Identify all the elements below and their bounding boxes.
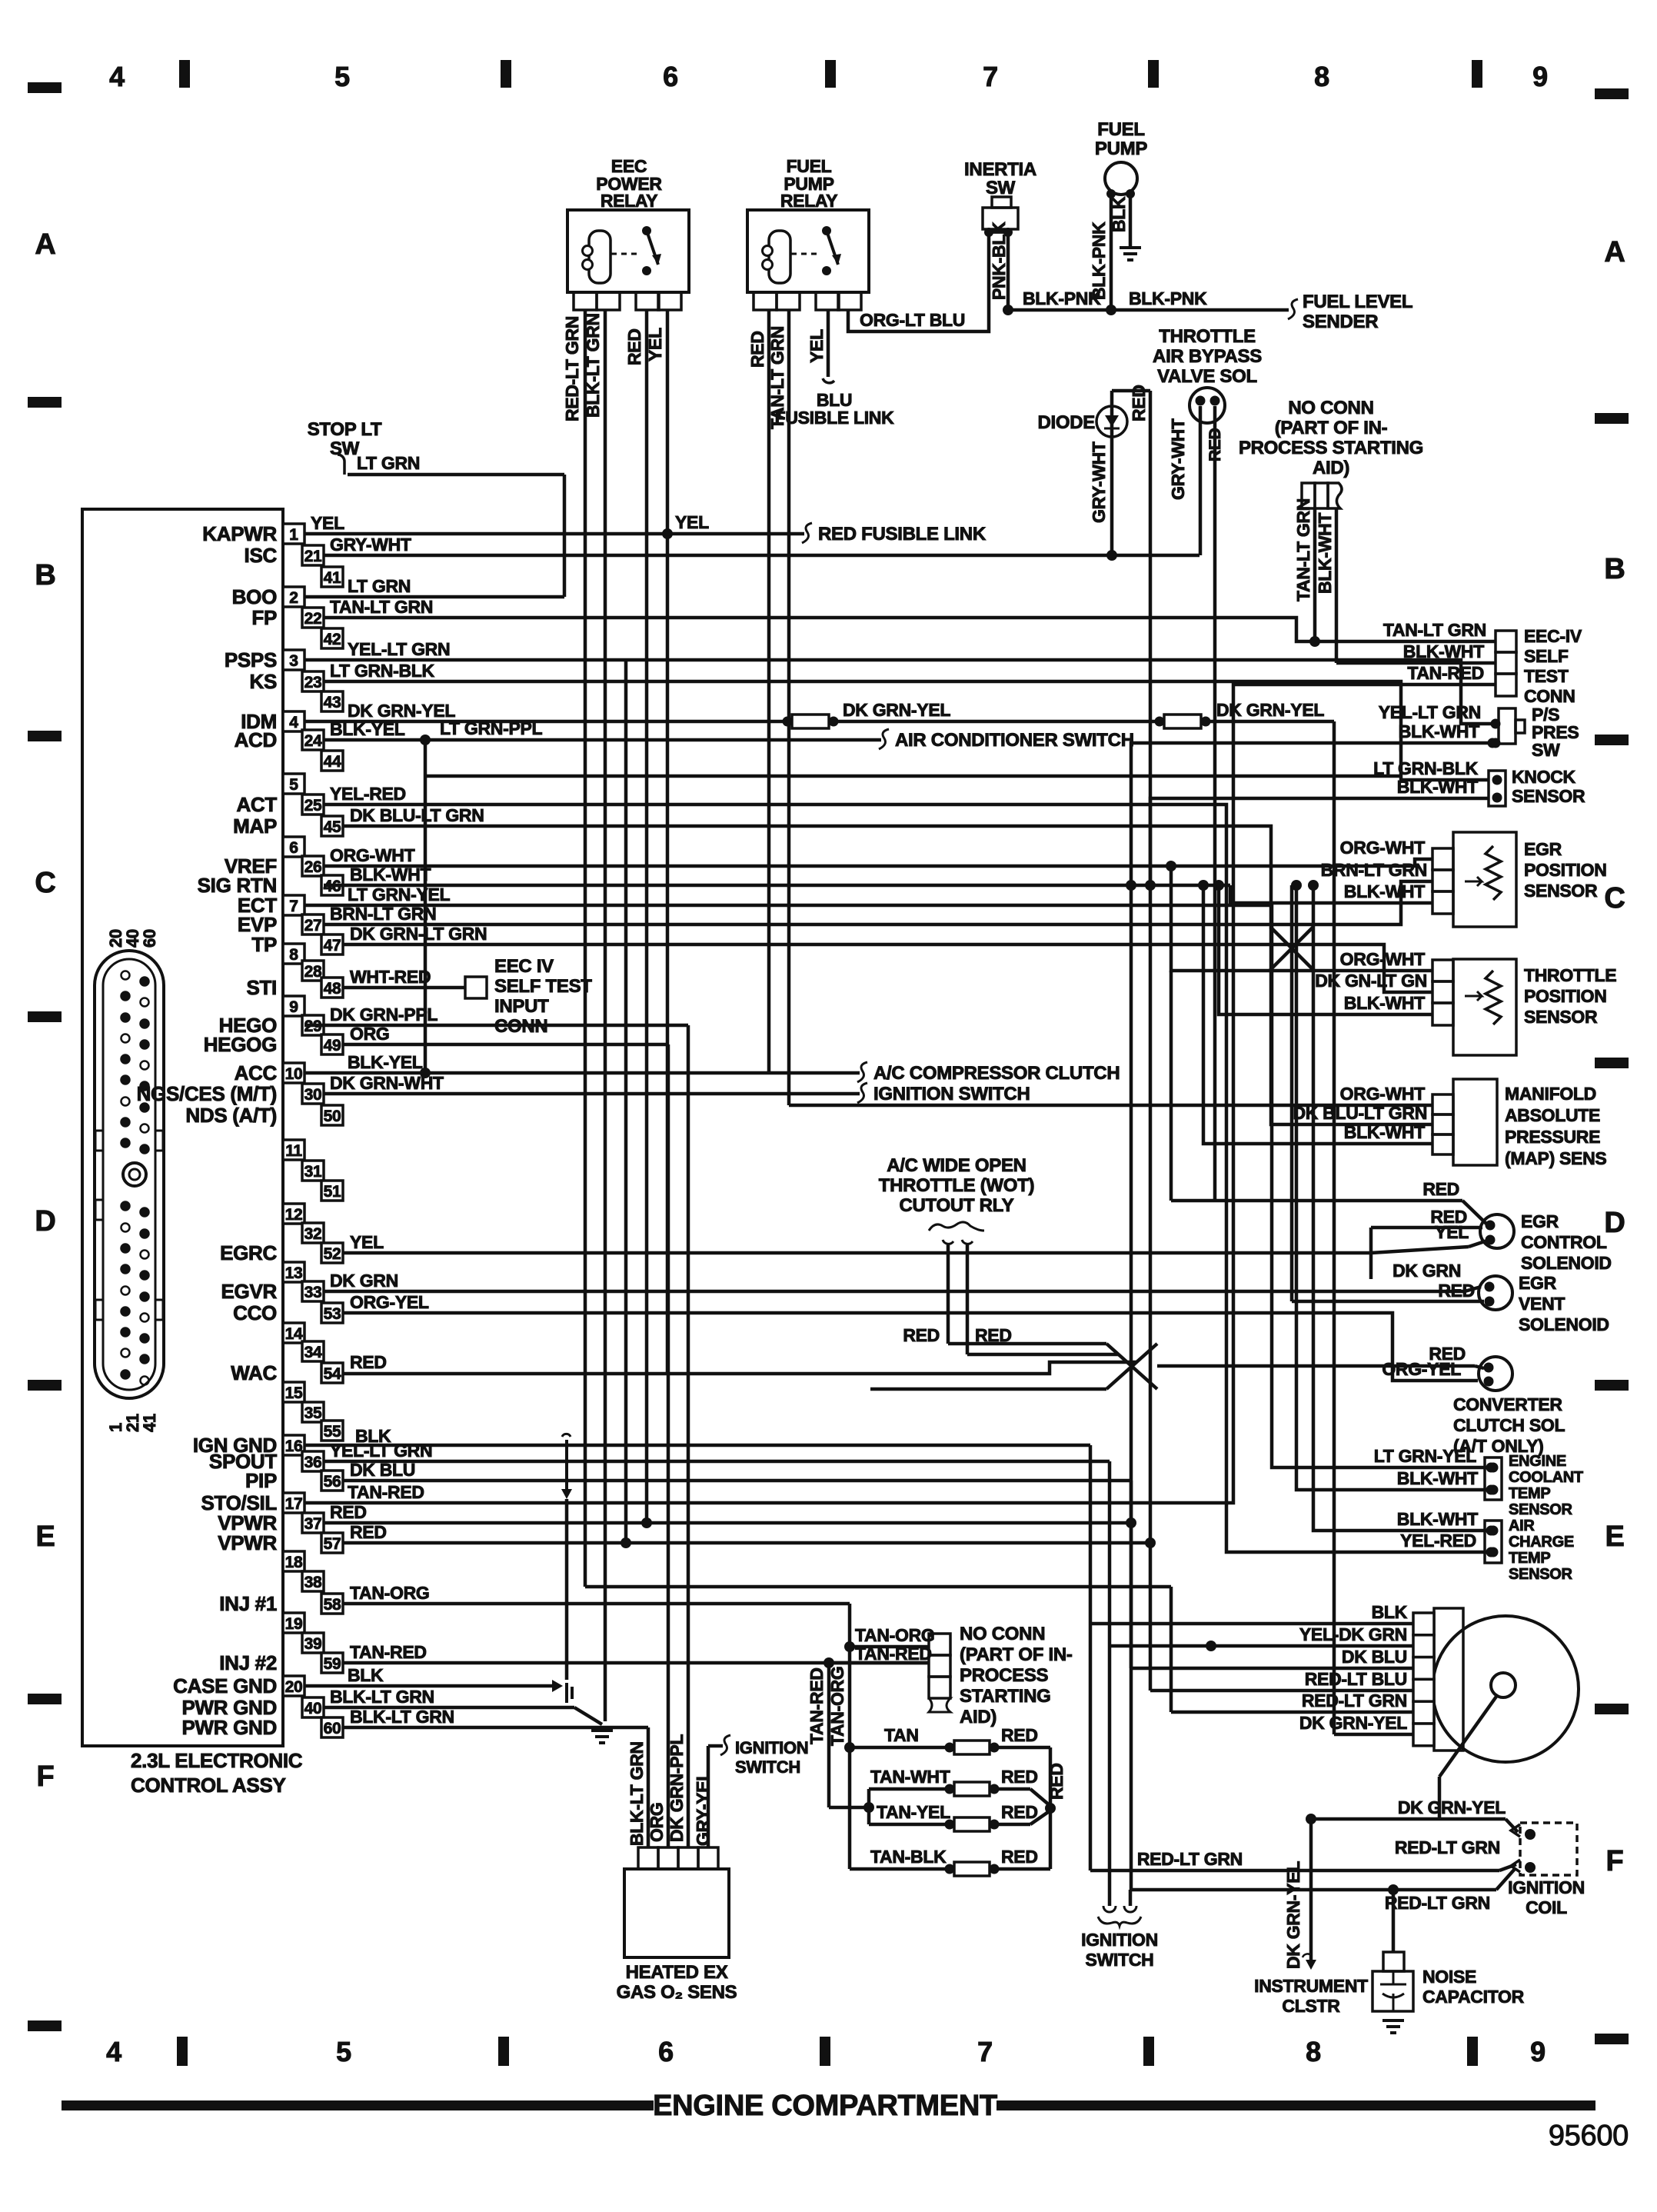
svg-text:BLK: BLK — [1109, 196, 1129, 232]
svg-text:RED: RED — [1129, 385, 1149, 421]
svg-text:GAS O₂ SENS: GAS O₂ SENS — [617, 1982, 737, 2003]
svg-text:5: 5 — [334, 61, 350, 92]
svg-text:37: 37 — [304, 1515, 322, 1533]
svg-text:KAPWR: KAPWR — [202, 522, 277, 545]
svg-text:YEL-LT GRN: YEL-LT GRN — [1379, 702, 1481, 722]
svg-text:33: 33 — [304, 1284, 322, 1301]
svg-text:RED: RED — [1422, 1179, 1459, 1199]
svg-text:2.3L ELECTRONIC: 2.3L ELECTRONIC — [131, 1749, 303, 1772]
svg-text:7: 7 — [977, 2036, 993, 2067]
svg-text:TAN-RED: TAN-RED — [348, 1482, 424, 1502]
svg-text:DIODE: DIODE — [1037, 412, 1095, 433]
svg-text:LT GRN-BLK: LT GRN-BLK — [1373, 758, 1479, 778]
svg-text:26: 26 — [304, 858, 322, 876]
svg-text:SOLENOID: SOLENOID — [1519, 1314, 1609, 1334]
svg-text:PWR GND: PWR GND — [181, 1716, 277, 1739]
svg-text:INJ #2: INJ #2 — [219, 1651, 277, 1674]
svg-text:DK GRN-YEL: DK GRN-YEL — [1283, 1861, 1303, 1969]
svg-text:SOLENOID: SOLENOID — [1521, 1253, 1612, 1273]
svg-text:DK BLU-LT GRN: DK BLU-LT GRN — [350, 805, 484, 825]
svg-text:SENSOR: SENSOR — [1512, 786, 1585, 806]
svg-text:MAP: MAP — [233, 815, 277, 838]
svg-text:45: 45 — [324, 818, 341, 836]
svg-text:RED: RED — [1438, 1281, 1475, 1301]
svg-text:E: E — [1605, 1521, 1624, 1553]
svg-text:E: E — [35, 1521, 55, 1553]
svg-text:18: 18 — [285, 1554, 303, 1571]
svg-text:YEL-LT GRN: YEL-LT GRN — [348, 639, 450, 659]
svg-text:50: 50 — [324, 1108, 341, 1125]
svg-text:53: 53 — [324, 1305, 341, 1323]
svg-text:RED: RED — [330, 1502, 367, 1522]
svg-text:4: 4 — [289, 714, 298, 731]
svg-text:YEL: YEL — [645, 328, 665, 361]
svg-text:VALVE SOL: VALVE SOL — [1157, 366, 1257, 387]
svg-text:8: 8 — [289, 946, 298, 964]
svg-text:56: 56 — [324, 1473, 341, 1491]
svg-text:SELF TEST: SELF TEST — [494, 976, 592, 997]
svg-text:RED-LT GRN: RED-LT GRN — [562, 316, 582, 421]
svg-text:RED-LT GRN: RED-LT GRN — [1395, 1837, 1500, 1857]
svg-text:4: 4 — [109, 61, 125, 92]
svg-text:30: 30 — [304, 1086, 322, 1104]
svg-text:9: 9 — [289, 998, 298, 1016]
svg-text:STARTING: STARTING — [960, 1686, 1050, 1707]
svg-text:C: C — [35, 867, 55, 899]
svg-text:BLK-WHT: BLK-WHT — [1315, 513, 1335, 594]
svg-text:NO CONN: NO CONN — [960, 1624, 1045, 1644]
svg-text:TAN-BLK: TAN-BLK — [870, 1847, 947, 1867]
svg-text:AIR BYPASS: AIR BYPASS — [1153, 346, 1262, 367]
svg-text:YEL: YEL — [350, 1232, 384, 1252]
svg-text:38: 38 — [304, 1574, 322, 1591]
svg-text:AIR: AIR — [1509, 1517, 1535, 1534]
svg-text:34: 34 — [304, 1344, 322, 1361]
svg-text:39: 39 — [304, 1635, 322, 1653]
svg-text:BRN-LT GRN: BRN-LT GRN — [330, 904, 436, 924]
svg-text:BOO: BOO — [232, 585, 277, 608]
svg-text:PSPS: PSPS — [225, 648, 277, 671]
svg-text:RELAY: RELAY — [780, 191, 837, 211]
svg-text:HEGOG: HEGOG — [204, 1033, 277, 1056]
svg-text:DK GRN-WHT: DK GRN-WHT — [330, 1073, 444, 1093]
svg-text:YEL: YEL — [807, 329, 827, 363]
svg-text:43: 43 — [324, 694, 341, 711]
svg-text:PNK-BLK: PNK-BLK — [989, 222, 1009, 300]
svg-text:TAN-RED: TAN-RED — [1407, 663, 1484, 683]
svg-text:SW: SW — [1532, 740, 1560, 760]
svg-text:14: 14 — [285, 1325, 303, 1343]
svg-text:LT GRN-PPL: LT GRN-PPL — [440, 718, 543, 738]
svg-text:60: 60 — [324, 1720, 341, 1737]
svg-text:EEC IV: EEC IV — [494, 956, 554, 977]
svg-text:RED: RED — [975, 1325, 1012, 1345]
svg-text:60: 60 — [140, 929, 159, 948]
svg-text:RED: RED — [1430, 1207, 1467, 1227]
svg-text:BLK-WHT: BLK-WHT — [1403, 641, 1484, 661]
svg-text:GRY-WHT: GRY-WHT — [330, 535, 411, 555]
svg-text:BLK-WHT: BLK-WHT — [1344, 993, 1425, 1013]
svg-text:BLK-WHT: BLK-WHT — [1344, 881, 1425, 901]
svg-text:95600: 95600 — [1549, 2120, 1629, 2152]
svg-text:BLK-LT GRN: BLK-LT GRN — [330, 1687, 434, 1707]
svg-text:FUEL LEVEL: FUEL LEVEL — [1303, 291, 1412, 312]
svg-text:THROTTLE: THROTTLE — [1524, 965, 1616, 985]
svg-text:2: 2 — [289, 589, 298, 607]
svg-text:GRY-WHT: GRY-WHT — [1089, 441, 1109, 523]
svg-text:DK GRN-PPL: DK GRN-PPL — [330, 1004, 438, 1024]
svg-text:RED FUSIBLE LINK: RED FUSIBLE LINK — [818, 524, 987, 545]
svg-text:BLK-YEL: BLK-YEL — [348, 1052, 423, 1072]
svg-text:4: 4 — [106, 2036, 121, 2067]
svg-text:57: 57 — [324, 1535, 341, 1553]
svg-text:TAN-ORG: TAN-ORG — [350, 1583, 430, 1603]
svg-text:FUEL: FUEL — [1097, 119, 1144, 140]
svg-text:16: 16 — [285, 1437, 303, 1455]
svg-text:PROCESS STARTING: PROCESS STARTING — [1239, 438, 1423, 458]
svg-text:TP: TP — [251, 933, 277, 956]
svg-text:ISC: ISC — [245, 544, 278, 567]
svg-text:SENSOR: SENSOR — [1509, 1501, 1573, 1518]
svg-text:AID): AID) — [1313, 458, 1349, 478]
svg-text:THROTTLE: THROTTLE — [1159, 326, 1256, 347]
svg-text:BLK-WHT: BLK-WHT — [1397, 777, 1478, 797]
svg-text:BLK-PNK: BLK-PNK — [1129, 288, 1207, 308]
svg-text:CLSTR: CLSTR — [1282, 1996, 1340, 2016]
svg-text:8: 8 — [1306, 2036, 1321, 2067]
svg-text:DK GRN-YEL: DK GRN-YEL — [843, 700, 950, 720]
svg-text:21: 21 — [304, 548, 322, 565]
svg-text:20: 20 — [285, 1678, 303, 1696]
svg-text:TEST: TEST — [1524, 666, 1569, 686]
svg-text:SENDER: SENDER — [1303, 311, 1378, 332]
svg-text:EGR: EGR — [1521, 1211, 1559, 1231]
svg-text:BLK: BLK — [348, 1665, 384, 1685]
svg-text:48: 48 — [324, 980, 341, 998]
svg-text:9: 9 — [1530, 2036, 1546, 2067]
svg-text:ORG-WHT: ORG-WHT — [330, 845, 415, 865]
svg-text:BLK-LT GRN: BLK-LT GRN — [627, 1741, 647, 1846]
svg-text:BRN-LT GRN: BRN-LT GRN — [1321, 860, 1427, 880]
svg-text:RED: RED — [1001, 1802, 1038, 1822]
svg-text:YEL: YEL — [675, 512, 709, 532]
svg-text:YEL: YEL — [311, 513, 344, 533]
svg-text:NDS (A/T): NDS (A/T) — [185, 1104, 277, 1127]
svg-text:TEMP: TEMP — [1509, 1550, 1550, 1567]
svg-text:MANIFOLD: MANIFOLD — [1505, 1084, 1596, 1104]
svg-text:3: 3 — [289, 652, 298, 670]
svg-text:DK GRN: DK GRN — [330, 1271, 398, 1291]
svg-text:BLK-WHT: BLK-WHT — [1397, 1468, 1478, 1488]
svg-text:PROCESS: PROCESS — [960, 1665, 1049, 1686]
svg-text:KNOCK: KNOCK — [1512, 767, 1576, 787]
svg-text:ACD: ACD — [235, 728, 277, 751]
svg-text:EGR: EGR — [1524, 839, 1562, 859]
svg-text:TAN-LT GRN: TAN-LT GRN — [1383, 620, 1486, 640]
svg-text:23: 23 — [304, 674, 322, 691]
svg-text:44: 44 — [324, 753, 341, 771]
svg-text:TAN-RED: TAN-RED — [807, 1667, 827, 1744]
svg-text:FP: FP — [251, 606, 277, 629]
svg-text:40: 40 — [304, 1700, 322, 1717]
svg-text:(MAP) SENS: (MAP) SENS — [1505, 1148, 1606, 1168]
svg-text:TAN-LT GRN: TAN-LT GRN — [767, 326, 787, 429]
svg-text:CASE GND: CASE GND — [173, 1674, 277, 1697]
svg-text:49: 49 — [324, 1037, 341, 1054]
svg-text:YEL-LT GRN: YEL-LT GRN — [330, 1441, 432, 1461]
svg-text:THROTTLE (WOT): THROTTLE (WOT) — [879, 1175, 1034, 1196]
svg-text:TAN-RED: TAN-RED — [855, 1644, 932, 1664]
svg-text:EGR: EGR — [1519, 1273, 1557, 1293]
svg-text:RED: RED — [1206, 428, 1224, 461]
svg-text:ORG-LT BLU: ORG-LT BLU — [860, 310, 965, 330]
svg-text:TAN: TAN — [884, 1725, 919, 1745]
svg-text:TAN-ORG: TAN-ORG — [855, 1625, 935, 1645]
svg-text:FUSIBLE LINK: FUSIBLE LINK — [775, 408, 895, 428]
svg-text:RED-LT GRN: RED-LT GRN — [1385, 1893, 1490, 1913]
svg-text:7: 7 — [983, 61, 998, 92]
svg-text:AID): AID) — [960, 1707, 997, 1727]
svg-text:6: 6 — [658, 2036, 674, 2067]
svg-text:CCO: CCO — [233, 1301, 277, 1324]
svg-text:TAN-LT GRN: TAN-LT GRN — [330, 597, 433, 617]
svg-text:NOISE: NOISE — [1422, 1967, 1476, 1987]
svg-text:CLUTCH SOL: CLUTCH SOL — [1453, 1415, 1565, 1435]
svg-text:NGS/CES (M/T): NGS/CES (M/T) — [137, 1082, 277, 1105]
svg-text:51: 51 — [324, 1183, 341, 1201]
svg-text:17: 17 — [285, 1495, 303, 1513]
svg-text:42: 42 — [324, 631, 341, 648]
svg-text:COIL: COIL — [1526, 1897, 1567, 1917]
svg-text:A/C WIDE OPEN: A/C WIDE OPEN — [887, 1155, 1026, 1176]
svg-text:PRESSURE: PRESSURE — [1505, 1127, 1600, 1147]
svg-text:DK GN-LT GN: DK GN-LT GN — [1315, 971, 1427, 991]
svg-text:RED-LT GRN: RED-LT GRN — [1137, 1849, 1243, 1869]
svg-text:RED: RED — [903, 1325, 940, 1345]
svg-text:6: 6 — [289, 839, 298, 857]
svg-text:STI: STI — [246, 976, 277, 999]
svg-text:RED: RED — [1001, 1767, 1038, 1787]
svg-text:IGNITION: IGNITION — [1081, 1930, 1158, 1950]
svg-text:TEMP: TEMP — [1509, 1485, 1550, 1502]
svg-text:SELF: SELF — [1524, 646, 1569, 666]
svg-text:5: 5 — [289, 776, 298, 794]
svg-text:IGNITION SWITCH: IGNITION SWITCH — [873, 1084, 1030, 1104]
svg-text:DK GRN: DK GRN — [1392, 1261, 1461, 1281]
svg-text:POSITION: POSITION — [1524, 986, 1607, 1006]
svg-text:ENGINE COMPARTMENT: ENGINE COMPARTMENT — [653, 2090, 997, 2122]
svg-text:RED-LT BLU: RED-LT BLU — [1305, 1669, 1407, 1689]
svg-text:BLK-YEL: BLK-YEL — [330, 719, 405, 739]
svg-text:12: 12 — [285, 1206, 303, 1224]
svg-text:ACT: ACT — [236, 793, 277, 816]
svg-text:25: 25 — [304, 797, 322, 815]
svg-text:LT GRN: LT GRN — [348, 576, 411, 596]
svg-text:1: 1 — [289, 526, 298, 544]
svg-text:ACC: ACC — [235, 1061, 278, 1084]
svg-text:LT GRN-BLK: LT GRN-BLK — [330, 661, 435, 681]
svg-text:22: 22 — [304, 610, 322, 628]
svg-text:F: F — [1606, 1845, 1624, 1877]
svg-text:BLK-WHT: BLK-WHT — [1399, 721, 1479, 741]
svg-text:VPWR: VPWR — [218, 1531, 277, 1554]
svg-text:B: B — [35, 559, 55, 591]
svg-text:RED: RED — [1429, 1344, 1466, 1364]
svg-text:AIR CONDITIONER SWITCH: AIR CONDITIONER SWITCH — [895, 730, 1134, 751]
svg-text:SW: SW — [986, 178, 1016, 198]
svg-text:C: C — [1604, 882, 1625, 914]
svg-text:52: 52 — [324, 1245, 341, 1263]
svg-text:RED: RED — [350, 1522, 387, 1542]
svg-text:ORG-WHT: ORG-WHT — [1340, 1084, 1426, 1104]
svg-text:5: 5 — [336, 2036, 351, 2067]
svg-text:CUTOUT RLY: CUTOUT RLY — [899, 1195, 1013, 1216]
svg-text:DK GRN-YEL: DK GRN-YEL — [1398, 1797, 1506, 1817]
svg-text:NO CONN: NO CONN — [1288, 398, 1373, 418]
svg-text:RED: RED — [350, 1352, 387, 1372]
svg-text:SW: SW — [330, 438, 360, 459]
svg-text:31: 31 — [304, 1163, 322, 1181]
svg-text:15: 15 — [285, 1384, 303, 1402]
svg-text:CAPACITOR: CAPACITOR — [1422, 1987, 1525, 2007]
svg-text:41: 41 — [140, 1414, 159, 1432]
svg-text:STOP LT: STOP LT — [308, 419, 382, 440]
svg-text:ENGINE: ENGINE — [1509, 1453, 1566, 1470]
svg-text:BLK-WHT: BLK-WHT — [1344, 1122, 1425, 1142]
svg-text:D: D — [1604, 1207, 1625, 1239]
svg-text:(PART OF IN-: (PART OF IN- — [960, 1644, 1073, 1665]
svg-text:47: 47 — [324, 937, 341, 954]
svg-text:F: F — [37, 1761, 55, 1793]
svg-text:B: B — [1604, 553, 1625, 585]
svg-text:SENSOR: SENSOR — [1524, 881, 1598, 901]
svg-text:A: A — [35, 228, 55, 261]
svg-text:ABSOLUTE: ABSOLUTE — [1505, 1105, 1600, 1125]
svg-text:EEC-IV: EEC-IV — [1524, 626, 1582, 646]
svg-text:TAN-WHT: TAN-WHT — [870, 1767, 950, 1787]
svg-text:RED: RED — [1001, 1725, 1038, 1745]
svg-text:19: 19 — [285, 1615, 303, 1633]
svg-text:A/C COMPRESSOR CLUTCH: A/C COMPRESSOR CLUTCH — [873, 1063, 1120, 1084]
svg-text:28: 28 — [304, 963, 322, 981]
svg-text:11: 11 — [285, 1142, 302, 1160]
svg-text:TAN-LT GRN: TAN-LT GRN — [1293, 498, 1313, 601]
svg-text:A: A — [1604, 236, 1625, 268]
svg-text:EGVR: EGVR — [221, 1280, 278, 1303]
svg-text:WAC: WAC — [231, 1361, 277, 1384]
svg-text:KS: KS — [249, 670, 277, 693]
svg-text:41: 41 — [324, 569, 341, 587]
svg-text:INPUT: INPUT — [494, 996, 549, 1017]
svg-text:(PART OF IN-: (PART OF IN- — [1275, 418, 1388, 438]
svg-text:RED: RED — [1001, 1847, 1038, 1867]
svg-text:INERTIA: INERTIA — [964, 159, 1036, 180]
svg-text:YEL-RED: YEL-RED — [1400, 1531, 1476, 1551]
svg-text:32: 32 — [304, 1225, 322, 1243]
svg-text:EGRC: EGRC — [220, 1241, 277, 1264]
svg-text:BLK: BLK — [1372, 1602, 1408, 1622]
svg-text:59: 59 — [324, 1655, 341, 1673]
svg-text:D: D — [35, 1205, 55, 1238]
svg-text:GRY-WHT: GRY-WHT — [1168, 418, 1188, 500]
svg-text:RED-LT GRN: RED-LT GRN — [1302, 1691, 1407, 1711]
svg-text:DK BLU: DK BLU — [1342, 1647, 1407, 1667]
svg-text:SWITCH: SWITCH — [735, 1757, 800, 1777]
svg-text:COOLANT: COOLANT — [1509, 1469, 1583, 1486]
svg-text:36: 36 — [304, 1454, 322, 1471]
svg-text:RED: RED — [1046, 1763, 1066, 1800]
svg-text:RELAY: RELAY — [601, 191, 657, 211]
svg-text:58: 58 — [324, 1596, 341, 1614]
svg-text:LT GRN-YEL: LT GRN-YEL — [348, 884, 451, 904]
svg-text:LT GRN: LT GRN — [357, 453, 420, 473]
svg-text:BLK-WHT: BLK-WHT — [1397, 1509, 1478, 1529]
svg-text:6: 6 — [663, 61, 678, 92]
svg-text:WHT-RED: WHT-RED — [350, 967, 431, 987]
svg-text:PIP: PIP — [245, 1469, 277, 1492]
svg-text:HEATED EX: HEATED EX — [626, 1962, 728, 1983]
svg-text:BLK-WHT: BLK-WHT — [350, 864, 431, 884]
svg-text:8: 8 — [1314, 61, 1329, 92]
svg-text:24: 24 — [304, 732, 322, 750]
svg-text:13: 13 — [285, 1264, 303, 1282]
svg-text:TAN-RED: TAN-RED — [350, 1642, 427, 1662]
svg-text:BLK-LT GRN: BLK-LT GRN — [583, 313, 603, 418]
svg-text:SENSOR: SENSOR — [1524, 1007, 1598, 1027]
svg-text:35: 35 — [304, 1404, 322, 1422]
svg-text:ORG: ORG — [350, 1024, 390, 1044]
svg-text:55: 55 — [324, 1423, 341, 1441]
svg-text:CONN: CONN — [1524, 686, 1575, 706]
svg-text:9: 9 — [1532, 61, 1548, 92]
svg-text:ORG-YEL: ORG-YEL — [350, 1292, 429, 1312]
svg-text:YEL-DK GRN: YEL-DK GRN — [1299, 1624, 1407, 1644]
svg-text:DK GRN-YEL: DK GRN-YEL — [1299, 1713, 1407, 1733]
svg-text:SENSOR: SENSOR — [1509, 1566, 1573, 1583]
svg-text:BLK-LT GRN: BLK-LT GRN — [350, 1707, 454, 1727]
svg-text:YEL-RED: YEL-RED — [330, 784, 406, 804]
svg-text:ORG-WHT: ORG-WHT — [1340, 838, 1426, 858]
svg-text:INSTRUMENT: INSTRUMENT — [1254, 1976, 1368, 1996]
svg-text:RED: RED — [624, 328, 644, 365]
svg-text:CONTROL ASSY: CONTROL ASSY — [131, 1774, 286, 1797]
svg-text:TAN-YEL: TAN-YEL — [877, 1802, 950, 1822]
svg-text:54: 54 — [324, 1365, 341, 1383]
svg-text:RED: RED — [747, 331, 767, 368]
svg-text:IGNITION: IGNITION — [735, 1738, 808, 1757]
svg-text:CONTROL: CONTROL — [1521, 1232, 1607, 1252]
svg-text:DK BLU: DK BLU — [350, 1460, 415, 1480]
svg-text:27: 27 — [304, 917, 322, 934]
svg-text:CONVERTER: CONVERTER — [1453, 1394, 1562, 1414]
svg-text:7: 7 — [289, 898, 298, 915]
svg-text:10: 10 — [285, 1065, 303, 1083]
svg-text:IGNITION: IGNITION — [1508, 1877, 1585, 1897]
svg-text:PUMP: PUMP — [1095, 138, 1147, 159]
svg-text:POSITION: POSITION — [1524, 860, 1607, 880]
svg-text:VENT: VENT — [1519, 1294, 1565, 1314]
svg-text:SWITCH: SWITCH — [1086, 1950, 1154, 1970]
svg-text:DK GRN-LT GRN: DK GRN-LT GRN — [350, 924, 487, 944]
svg-text:INJ #1: INJ #1 — [219, 1592, 277, 1615]
svg-text:CHARGE: CHARGE — [1509, 1534, 1574, 1551]
svg-text:BLK-PNK: BLK-PNK — [1089, 222, 1109, 300]
